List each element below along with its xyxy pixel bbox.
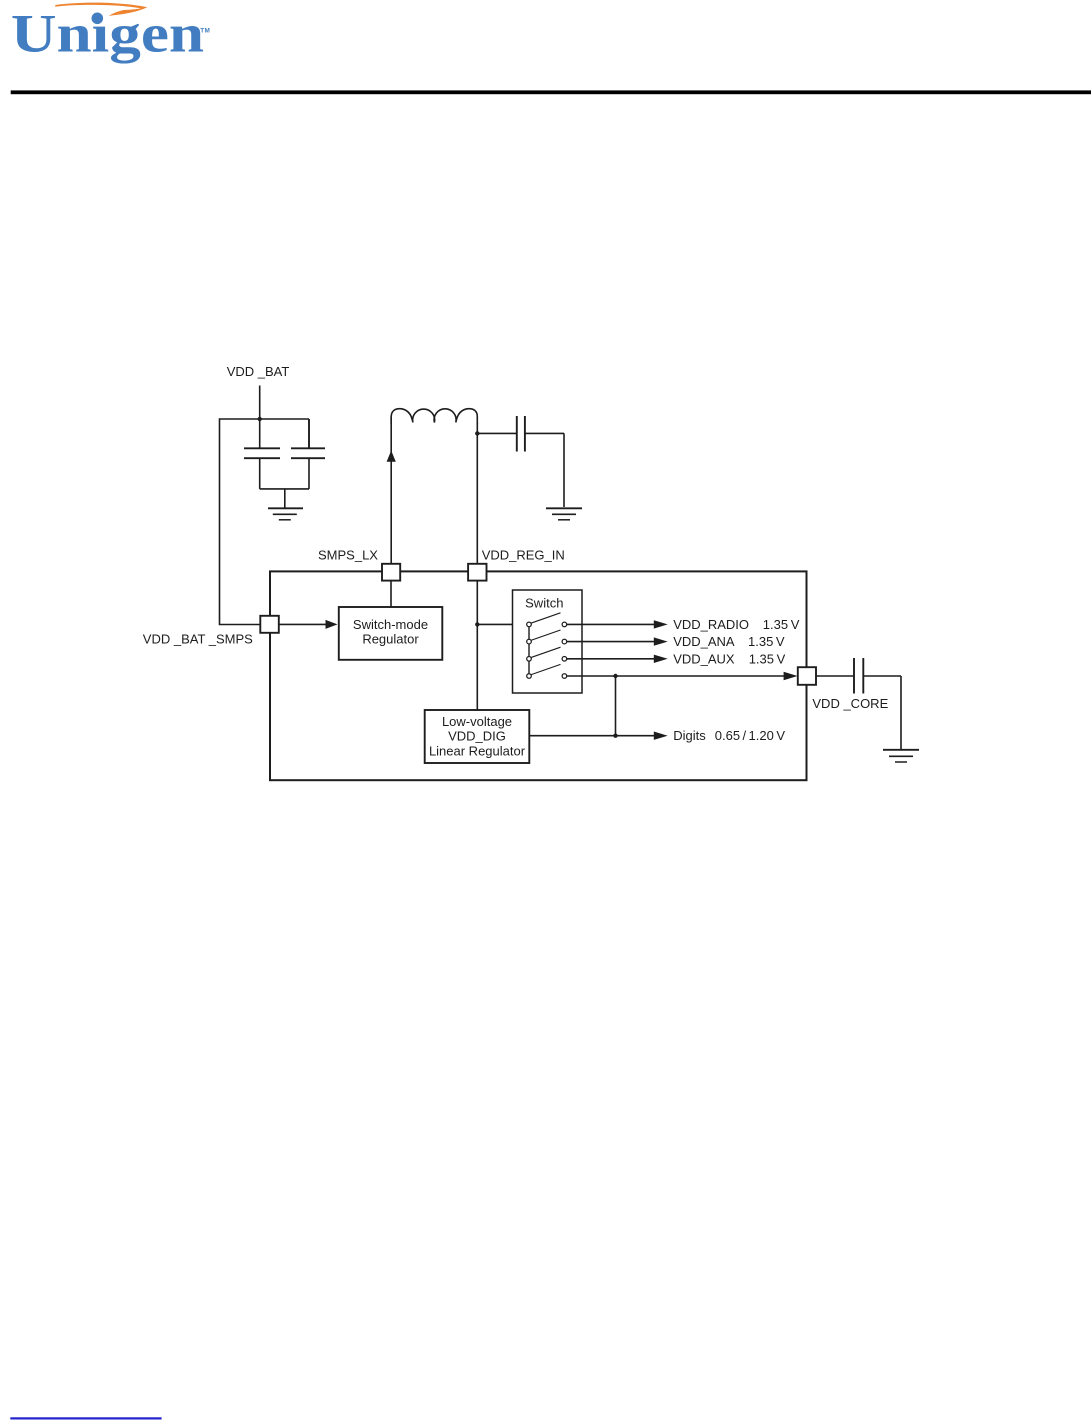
svg-text:1.35 V: 1.35 V: [748, 634, 785, 649]
svg-text:Regulator: Regulator: [362, 632, 419, 647]
svg-text:1.35 V: 1.35 V: [763, 617, 800, 632]
svg-text:0.65: 0.65: [715, 728, 740, 743]
svg-text:VDD _BAT: VDD _BAT: [227, 364, 290, 379]
svg-text:VDD_RADIO: VDD_RADIO: [673, 617, 749, 632]
svg-text:Low-voltage: Low-voltage: [442, 714, 512, 729]
svg-text:Switch-mode: Switch-mode: [353, 617, 428, 632]
svg-text:Digits: Digits: [673, 728, 706, 743]
svg-text:VDD_DIG: VDD_DIG: [448, 729, 506, 744]
svg-text:VDD _BAT _SMPS: VDD _BAT _SMPS: [143, 632, 253, 647]
svg-text:Switch: Switch: [525, 596, 563, 611]
svg-text:SMPS_LX: SMPS_LX: [318, 548, 378, 563]
svg-text:/: /: [743, 728, 747, 743]
svg-text:VDD_AUX: VDD_AUX: [673, 652, 735, 667]
svg-text:VDD_ANA: VDD_ANA: [673, 634, 735, 649]
svg-text:VDD _CORE: VDD _CORE: [812, 696, 888, 711]
svg-text:Unıgen: Unıgen: [11, 4, 204, 64]
svg-text:Linear Regulator: Linear Regulator: [429, 743, 526, 758]
svg-text:1.20 V: 1.20 V: [749, 728, 786, 743]
svg-text:1.35 V: 1.35 V: [749, 652, 786, 667]
svg-text:VDD_REG_IN: VDD_REG_IN: [482, 548, 565, 563]
svg-text:TM: TM: [200, 27, 210, 34]
